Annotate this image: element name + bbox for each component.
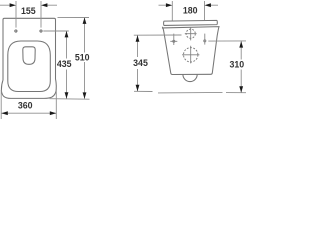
svg-text:180: 180 [183, 6, 198, 16]
svg-text:435: 435 [57, 59, 72, 69]
svg-text:345: 345 [133, 58, 148, 68]
svg-text:310: 310 [229, 59, 244, 69]
svg-text:360: 360 [18, 100, 33, 110]
svg-text:510: 510 [75, 53, 90, 63]
svg-text:155: 155 [21, 6, 36, 16]
